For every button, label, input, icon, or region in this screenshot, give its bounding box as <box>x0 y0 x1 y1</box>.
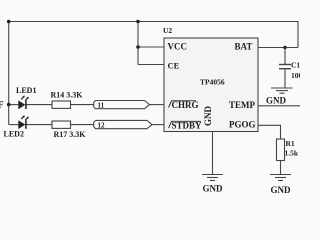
wire LED2 to R17 <box>26 124 52 126</box>
svg-text:TP4056: TP4056 <box>200 78 225 87</box>
wire TEMP pin <box>258 105 300 107</box>
wire IC GND pin down <box>212 132 214 175</box>
svg-text:GND: GND <box>271 185 292 195</box>
svg-text:C1: C1 <box>291 61 300 70</box>
svg-text:R1: R1 <box>286 139 295 148</box>
wire left vertical rail <box>8 22 10 125</box>
svg-text:STDBY: STDBY <box>172 121 203 131</box>
svg-text:GND: GND <box>203 184 224 194</box>
svg-text:U2: U2 <box>163 26 172 35</box>
svg-text:R14 3.3K: R14 3.3K <box>51 91 84 100</box>
svg-text:PGOG: PGOG <box>229 120 256 130</box>
capacitor C1 <box>279 48 291 88</box>
IC U2 TP4056 body <box>164 38 258 132</box>
resistor R14 <box>52 101 71 108</box>
wire LED2 anode <box>9 124 19 126</box>
wire PGOG pin to R1 <box>258 125 281 139</box>
ground (under R1) <box>270 175 291 181</box>
pin STDBY (active low) <box>169 121 203 131</box>
svg-text:CE: CE <box>168 61 180 71</box>
wire BAT pin <box>258 47 298 49</box>
wire R1 to ground <box>280 161 282 175</box>
svg-text:12: 12 <box>98 121 106 129</box>
wire port 11 to CHRG <box>150 104 165 106</box>
svg-text:BAT: BAT <box>235 42 253 52</box>
node junction dots <box>7 20 287 107</box>
svg-text:CHRG: CHRG <box>172 100 199 110</box>
wire port 12 to STDBY <box>152 124 164 126</box>
svg-text:R17 3.3K: R17 3.3K <box>54 130 87 139</box>
wire LED1 anode <box>9 104 19 106</box>
resistor R1 <box>277 139 285 161</box>
svg-text:11: 11 <box>98 101 105 109</box>
svg-text:TEMP: TEMP <box>229 100 256 110</box>
LED1 <box>18 96 29 110</box>
svg-text:VCC: VCC <box>168 42 188 52</box>
svg-text:LED1: LED1 <box>16 86 36 95</box>
wire CE pin <box>138 64 164 66</box>
ground (under C1) <box>271 88 293 93</box>
port 12 <box>94 120 152 129</box>
wire LED1 to R14 <box>26 104 52 106</box>
svg-text:106: 106 <box>291 71 300 80</box>
svg-text:F: F <box>0 100 4 110</box>
port 11 <box>94 101 150 110</box>
svg-text:GND: GND <box>203 106 213 127</box>
wire VCC pin <box>138 46 164 48</box>
LED2 <box>18 115 29 129</box>
svg-text:GND: GND <box>266 96 287 106</box>
wire R14 to port 11 <box>71 104 94 106</box>
pin CHRG (active low) <box>169 100 199 110</box>
svg-text:LED2: LED2 <box>4 130 24 139</box>
ground (under IC) <box>202 175 223 181</box>
wire R17 to port 12 <box>71 124 94 126</box>
wire vertical branch to VCC/CE <box>137 22 139 65</box>
resistor R17 <box>52 121 71 128</box>
wire top rail VCC <box>9 22 298 48</box>
svg-text:1.5k: 1.5k <box>285 149 299 158</box>
